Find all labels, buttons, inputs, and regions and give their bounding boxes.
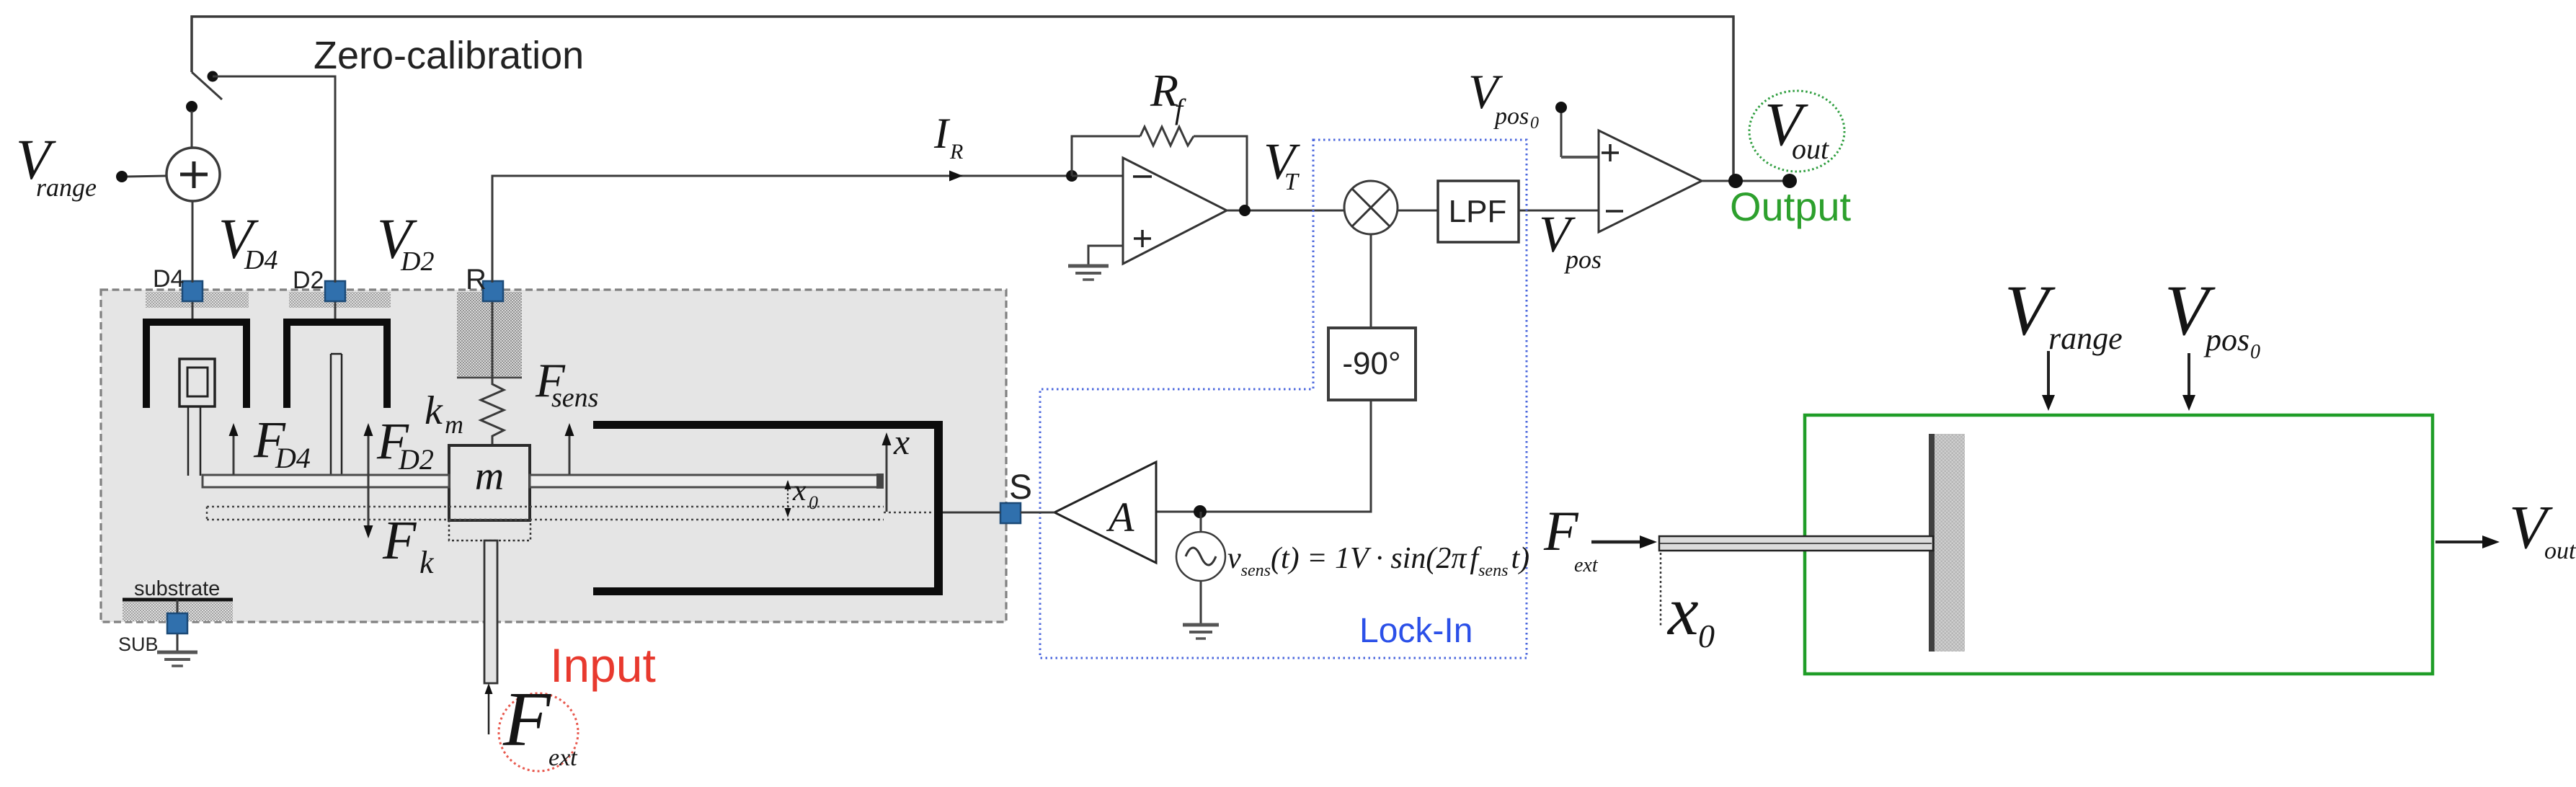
svg-text:k: k bbox=[419, 545, 435, 580]
svg-text:x: x bbox=[792, 474, 807, 507]
svg-text:0: 0 bbox=[1530, 114, 1539, 133]
svg-text:I: I bbox=[933, 110, 951, 157]
svg-text:sens: sens bbox=[551, 383, 598, 413]
svg-text:range: range bbox=[36, 173, 97, 202]
svg-text:0: 0 bbox=[2250, 341, 2260, 363]
svg-text:pos: pos bbox=[1563, 245, 1602, 274]
svg-text:m: m bbox=[475, 454, 504, 499]
svg-text:vsens(t) = 1V · sin(2πfsenst): vsens(t) = 1V · sin(2πfsenst) bbox=[1227, 542, 1529, 580]
svg-text:substrate: substrate bbox=[134, 577, 220, 600]
svg-text:-90°: -90° bbox=[1342, 346, 1400, 381]
svg-text:k: k bbox=[425, 388, 443, 433]
svg-text:F: F bbox=[382, 510, 417, 571]
svg-text:T: T bbox=[1284, 169, 1300, 195]
svg-text:out: out bbox=[2544, 538, 2576, 564]
svg-text:S: S bbox=[1009, 468, 1032, 507]
svg-text:Output: Output bbox=[1730, 184, 1852, 229]
svg-text:Lock-In: Lock-In bbox=[1359, 612, 1473, 650]
svg-text:ext: ext bbox=[548, 744, 578, 771]
svg-text:pos: pos bbox=[1493, 103, 1529, 130]
svg-text:m: m bbox=[445, 410, 463, 439]
svg-text:D4: D4 bbox=[244, 245, 277, 275]
svg-text:D4: D4 bbox=[153, 265, 184, 293]
svg-text:range: range bbox=[2048, 321, 2123, 356]
svg-text:Zero-calibration: Zero-calibration bbox=[314, 34, 584, 77]
svg-text:Input: Input bbox=[550, 639, 656, 692]
svg-text:R: R bbox=[466, 264, 487, 295]
svg-text:D2: D2 bbox=[400, 246, 434, 277]
svg-text:x: x bbox=[1666, 572, 1699, 649]
svg-text:LPF: LPF bbox=[1449, 194, 1507, 229]
svg-text:out: out bbox=[1792, 133, 1829, 165]
svg-text:0: 0 bbox=[809, 492, 818, 513]
svg-text:pos: pos bbox=[2203, 322, 2249, 357]
svg-text:A: A bbox=[1106, 494, 1134, 541]
svg-text:D2: D2 bbox=[398, 443, 434, 476]
svg-text:F: F bbox=[502, 677, 551, 762]
svg-text:ext: ext bbox=[1574, 554, 1599, 577]
svg-text:R: R bbox=[949, 140, 963, 164]
svg-text:0: 0 bbox=[1698, 618, 1715, 654]
svg-text:F: F bbox=[1543, 499, 1579, 562]
svg-text:f: f bbox=[1175, 93, 1186, 125]
svg-text:SUB: SUB bbox=[118, 633, 159, 655]
svg-text:D2: D2 bbox=[293, 267, 324, 294]
svg-text:x: x bbox=[893, 422, 910, 462]
svg-text:D4: D4 bbox=[275, 442, 311, 474]
